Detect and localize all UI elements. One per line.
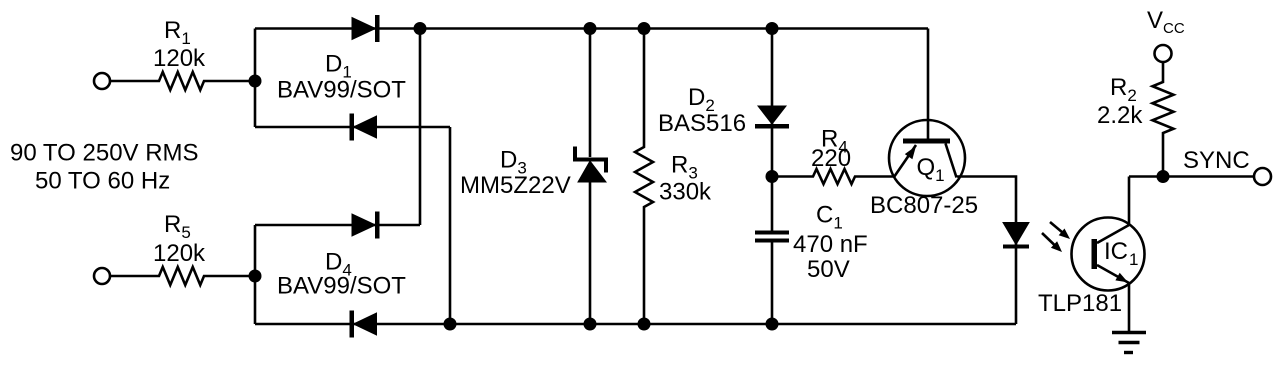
wire node B vertical xyxy=(254,225,257,324)
wire D2/C1 branch xyxy=(771,29,774,325)
junction top rail at R3 xyxy=(638,22,651,35)
svg-text:SYNC: SYNC xyxy=(1183,147,1250,174)
diode D4b bottom xyxy=(350,311,377,338)
terminal SYNC xyxy=(1254,168,1271,185)
LED light arrow upper xyxy=(1050,222,1070,239)
svg-text:220: 220 xyxy=(811,145,851,172)
resistor R2 xyxy=(1153,62,1174,177)
junction bottom rail at R3 xyxy=(638,318,651,331)
svg-text:120k: 120k xyxy=(153,45,206,72)
wire D4 top xyxy=(255,224,420,227)
Q1 left diagonal xyxy=(894,145,916,177)
svg-text:R5: R5 xyxy=(164,211,191,242)
wire Q1 collector to LED xyxy=(957,177,1016,325)
diode D4a top xyxy=(352,212,380,239)
svg-text:R1: R1 xyxy=(164,17,191,48)
resistor R4 xyxy=(772,169,894,184)
transistor Q1 xyxy=(889,120,965,196)
IC1 emitter diagonal xyxy=(1097,265,1129,283)
IC1 collector diagonal xyxy=(1097,225,1129,243)
diode D1b bottom xyxy=(350,114,377,141)
junction bottom rail at C1 xyxy=(766,318,779,331)
junction top rail at D2 xyxy=(766,22,779,35)
wire top rail xyxy=(255,27,928,30)
resistor R5 xyxy=(110,267,255,285)
wire node A vertical xyxy=(254,29,257,128)
LED light arrow lower xyxy=(1042,233,1062,252)
node SYNC junction xyxy=(1157,170,1170,183)
IC1 base bar xyxy=(1092,239,1098,269)
IC1 emitter arrow xyxy=(1115,273,1128,283)
svg-text:BAS516: BAS516 xyxy=(658,110,746,137)
wire cross-connect D4 to top rail xyxy=(419,29,422,226)
wire zener branch xyxy=(589,29,592,325)
Q1 right diagonal xyxy=(946,144,957,178)
svg-text:470 nF: 470 nF xyxy=(793,231,868,258)
junction bottom rail at x450 xyxy=(444,318,457,331)
IC1 collector lead xyxy=(1128,177,1131,227)
wire cross-connect D1 to bottom rail xyxy=(449,127,452,324)
svg-text:TLP181: TLP181 xyxy=(1038,290,1122,317)
svg-text:90 TO 250V RMS: 90 TO 250V RMS xyxy=(10,140,199,167)
svg-text:BC807-25: BC807-25 xyxy=(870,192,978,219)
svg-text:50V: 50V xyxy=(807,256,850,283)
svg-text:MM5Z22V: MM5Z22V xyxy=(460,172,571,199)
junction bottom rail at D3 xyxy=(584,318,597,331)
node R4/C1 junction xyxy=(766,170,779,183)
svg-text:BAV99/SOT: BAV99/SOT xyxy=(277,273,406,300)
svg-text:C1: C1 xyxy=(816,202,843,233)
node B junction xyxy=(249,270,262,283)
LED of optocoupler xyxy=(1003,223,1029,249)
svg-text:R2: R2 xyxy=(1110,74,1137,105)
IC1 emitter lead xyxy=(1128,282,1131,331)
wire bottom rail xyxy=(255,323,1016,326)
zener D3 xyxy=(573,147,608,183)
svg-text:2.2k: 2.2k xyxy=(1097,102,1143,129)
Q1 emitter lead from top rail xyxy=(927,29,930,142)
wire SYNC xyxy=(1129,175,1254,178)
capacitor C1 xyxy=(755,231,789,243)
terminal line input xyxy=(94,73,110,89)
optocoupler IC1 xyxy=(1072,218,1145,291)
resistor R3 xyxy=(635,29,653,325)
svg-text:120k: 120k xyxy=(153,240,206,267)
terminal VCC xyxy=(1155,45,1172,62)
ground xyxy=(1112,333,1146,353)
Q1 arrow xyxy=(905,146,916,159)
junction top rail at D3 xyxy=(584,22,597,35)
svg-text:50 TO 60 Hz: 50 TO 60 Hz xyxy=(35,168,170,195)
resistor R1 xyxy=(110,72,255,90)
svg-text:330k: 330k xyxy=(659,179,712,206)
wire D1 bottom xyxy=(255,126,450,129)
diode D2 xyxy=(755,106,789,129)
terminal neutral input xyxy=(94,268,110,284)
svg-text:BAV99/SOT: BAV99/SOT xyxy=(277,77,406,104)
Q1 base bar xyxy=(903,139,950,144)
node A junction xyxy=(249,75,262,88)
diode D1a top xyxy=(352,15,380,42)
junction top rail at x420 xyxy=(414,22,427,35)
svg-text:VCC: VCC xyxy=(1147,7,1185,37)
